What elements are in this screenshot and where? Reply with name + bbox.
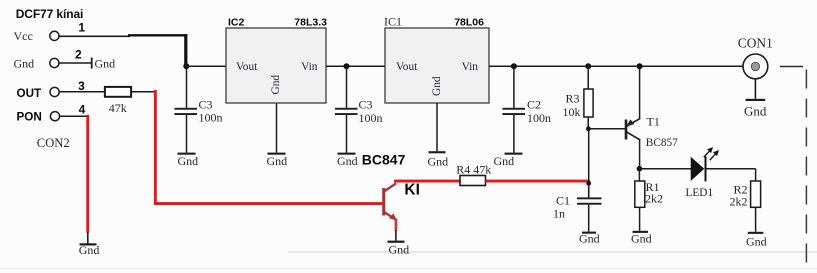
svg-text:1n: 1n (553, 207, 565, 221)
wire red OUT vertical (154, 90, 157, 205)
transistor T1 BC857 (625, 118, 641, 140)
wire red R4 to node B (486, 180, 591, 183)
svg-text:CON2: CON2 (37, 136, 70, 150)
node junction below Vcc drop (183, 63, 189, 69)
svg-text:4: 4 (79, 102, 86, 116)
svg-text:IC1: IC1 (384, 15, 402, 29)
svg-text:CON1: CON1 (738, 35, 773, 50)
svg-text:47k: 47k (109, 101, 127, 115)
svg-text:Gnd: Gnd (14, 56, 35, 70)
svg-text:C2: C2 (527, 98, 541, 112)
svg-text:Gnd: Gnd (270, 75, 282, 95)
ground below C3 first (178, 153, 196, 155)
ground below BC847 (388, 241, 405, 243)
svg-text:10k: 10k (563, 105, 581, 119)
pin circle 3 (OUT) (50, 87, 59, 96)
node junction C3 second (344, 63, 350, 69)
wire LED cathode to R2 corner (707, 168, 756, 170)
svg-text:Gnd: Gnd (431, 76, 443, 96)
ground below C3 second (338, 153, 356, 155)
wire pin4 stub (59, 115, 88, 117)
svg-text:Vout: Vout (396, 61, 418, 73)
svg-text:C3: C3 (359, 98, 373, 112)
svg-text:R3: R3 (566, 92, 580, 106)
svg-text:C3: C3 (199, 98, 213, 112)
svg-text:Gnd: Gnd (579, 232, 600, 246)
svg-text:Gnd: Gnd (178, 154, 199, 168)
connector CON1 (743, 54, 768, 79)
ground below CON1 (746, 99, 766, 101)
capacitor C2 (513, 66, 515, 108)
diode LED1 cathode bar (705, 156, 707, 181)
svg-text:100n: 100n (527, 111, 551, 125)
svg-text:Gnd: Gnd (337, 154, 358, 168)
wire black emitter to ground (395, 230, 397, 241)
LED light arrows (704, 147, 719, 160)
wire R47k to red corner (131, 91, 156, 93)
wire IC1 gnd pin (436, 103, 438, 151)
faint page rule line lower (288, 251, 817, 253)
svg-text:Vin: Vin (462, 61, 479, 73)
wire rail input segment (489, 65, 743, 67)
wire Vcc horizontal (59, 35, 130, 37)
resistor R3 (587, 66, 589, 89)
svg-text:PON: PON (17, 111, 42, 124)
node junction T1 at rail (637, 63, 643, 69)
wire CON1 to ground (754, 79, 756, 99)
svg-text:Gnd: Gnd (79, 243, 100, 257)
wire red PON to ground (86, 115, 89, 233)
resistor R4 (460, 176, 486, 186)
svg-text:1: 1 (78, 20, 85, 34)
ground below C2 (505, 153, 523, 155)
svg-text:3: 3 (78, 79, 85, 93)
svg-text:2k2: 2k2 (730, 195, 748, 209)
capacitor C1 (588, 183, 590, 197)
svg-text:100n: 100n (199, 111, 223, 125)
faint page rule line bottom (0, 268, 817, 270)
svg-text:KI: KI (404, 181, 420, 198)
wire T1 emitter up to rail (639, 66, 641, 119)
op IC2 regulator 78L3.3 box (226, 28, 326, 103)
pin circle 4 (PON) (50, 112, 59, 121)
node junction R3 top (585, 63, 591, 69)
ground terminator bar at pin2 (91, 58, 93, 69)
wire red collector to R4 (394, 180, 461, 183)
svg-text:DCF77 kínai: DCF77 kínai (16, 7, 84, 21)
ground PON (80, 243, 97, 245)
op IC1 regulator 78L06 box (385, 28, 489, 103)
wire T1 collector down (639, 140, 641, 169)
dashed continuation stub (780, 66, 803, 68)
svg-text:R4 47k: R4 47k (456, 162, 491, 176)
wire pin2 to gnd terminator (59, 62, 92, 64)
wire base node down to C1 (588, 129, 590, 198)
svg-text:C1: C1 (556, 194, 570, 208)
svg-text:Gnd: Gnd (95, 57, 116, 71)
svg-text:BC847: BC847 (362, 151, 406, 167)
wire red OUT horizontal to BC847 base (154, 202, 384, 205)
svg-text:BC857: BC857 (646, 137, 678, 149)
pin circle 2 (Gnd) (50, 58, 59, 67)
svg-text:2: 2 (75, 48, 82, 62)
resistor R1 (638, 169, 640, 181)
svg-text:Vcc: Vcc (14, 29, 33, 43)
ground below R1 (633, 231, 649, 233)
svg-text:Gnd: Gnd (267, 154, 288, 168)
svg-text:IC2: IC2 (228, 17, 245, 29)
svg-text:Vin: Vin (301, 61, 318, 73)
capacitor C3 second (346, 66, 348, 108)
node junction LED row (637, 166, 643, 172)
node junction red meets C1 (586, 181, 591, 186)
wire black below red PON (87, 232, 89, 244)
svg-text:2k2: 2k2 (645, 192, 663, 206)
svg-text:Vout: Vout (236, 61, 258, 73)
svg-text:Gnd: Gnd (428, 155, 449, 169)
wire base node to T1 base (588, 128, 625, 130)
svg-text:Gnd: Gnd (494, 154, 515, 168)
wire rail 3v3 segment (186, 65, 226, 67)
svg-text:Gnd: Gnd (746, 235, 767, 249)
node junction C2 (511, 63, 517, 69)
node junction base node (586, 126, 591, 131)
wire red BC847 emitter down (395, 219, 398, 231)
wire IC2 gnd pin (276, 103, 278, 153)
pin circle 1 (Vcc) (50, 31, 59, 40)
svg-text:Gnd: Gnd (631, 232, 652, 246)
svg-text:78L06: 78L06 (454, 17, 484, 29)
svg-text:LED1: LED1 (686, 187, 714, 199)
svg-text:T1: T1 (647, 115, 660, 129)
resistor R2 (751, 181, 761, 207)
ground below R2 (748, 232, 764, 234)
capacitor C3 first (186, 66, 188, 108)
wire pin3 to R47k (59, 91, 105, 93)
ground below IC1 (429, 151, 446, 153)
diode LED1 triangle (691, 157, 705, 181)
svg-text:Gnd: Gnd (744, 103, 767, 118)
wire Vcc thick vertical drop (184, 34, 187, 67)
wire rail 6v segment (326, 65, 385, 67)
ground below IC2 (268, 153, 286, 155)
svg-text:OUT: OUT (17, 87, 43, 100)
wire to LED anode (639, 168, 691, 170)
ground below C1 (582, 232, 596, 234)
svg-text:78L3.3: 78L3.3 (294, 17, 327, 29)
resistor 47k (series on OUT) (105, 87, 131, 97)
svg-text:100n: 100n (359, 111, 383, 125)
dashed vertical boundary (805, 70, 807, 265)
transistor Q1 BC847 (dark red) (382, 183, 397, 221)
svg-text:Gnd: Gnd (389, 243, 410, 257)
